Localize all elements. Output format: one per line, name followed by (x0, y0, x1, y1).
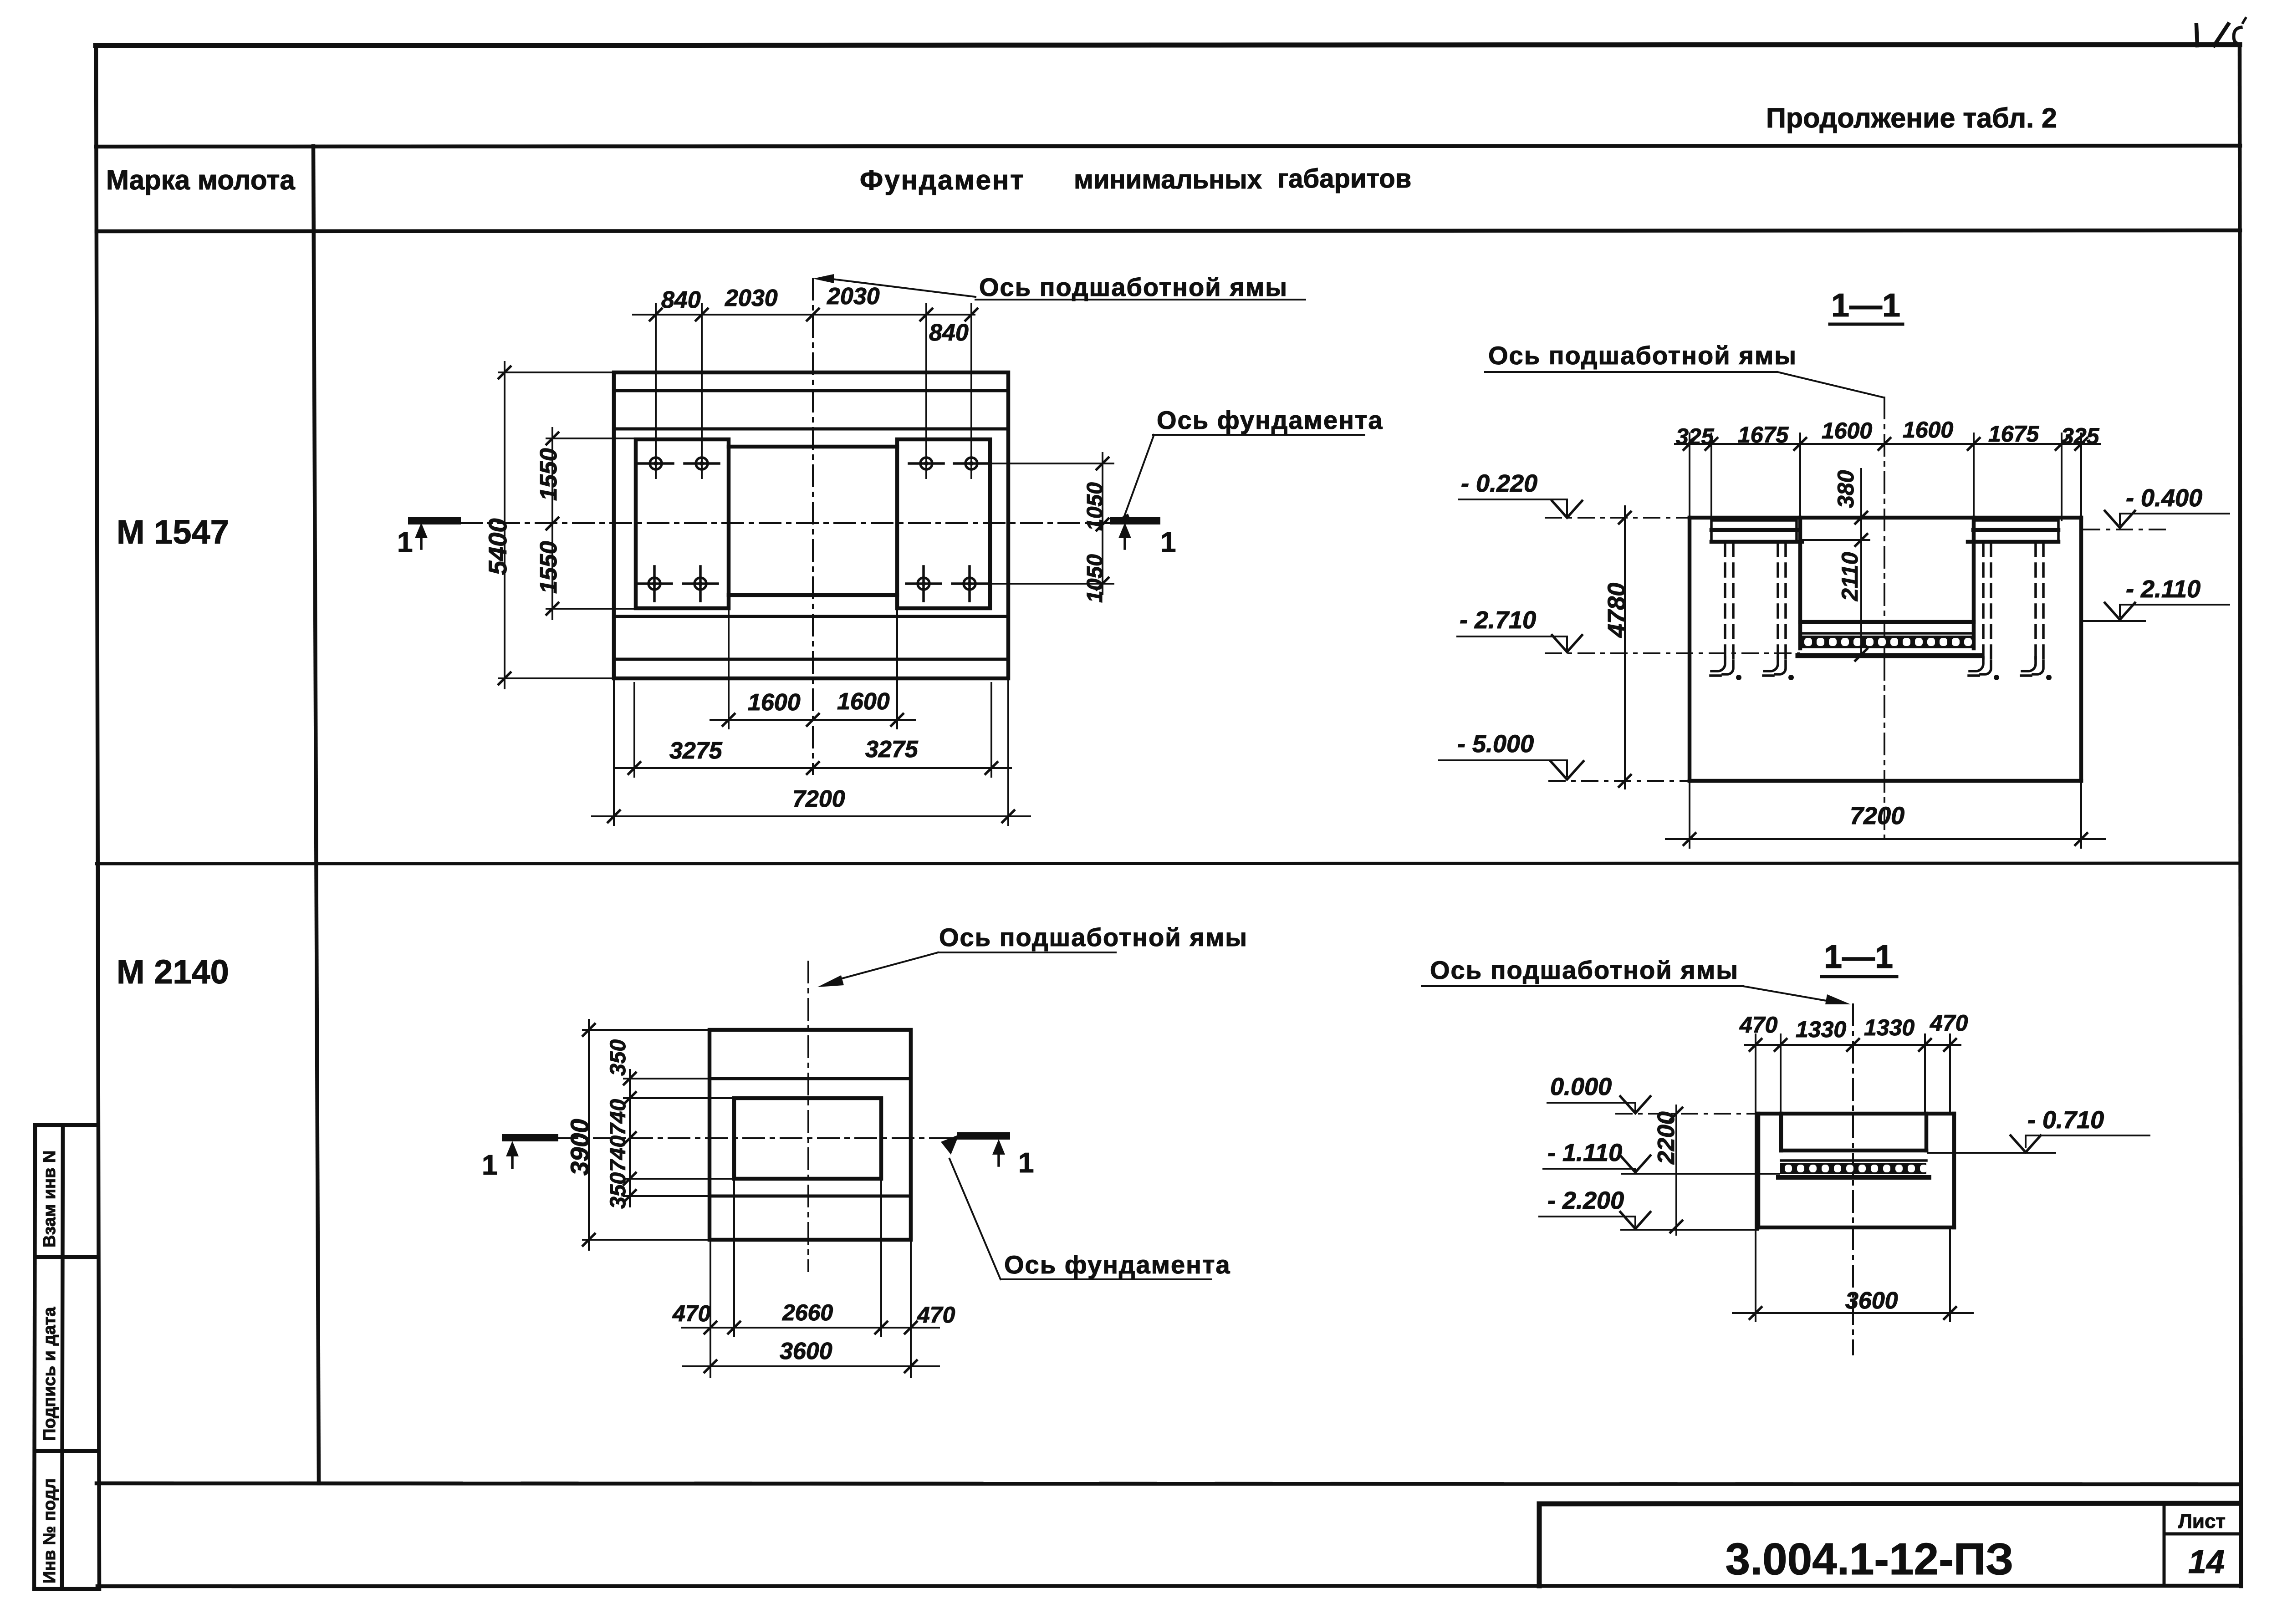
svg-text:Продолжение табл. 2: Продолжение табл. 2 (1766, 102, 2057, 133)
svg-text:- 0.710: - 0.710 (2027, 1106, 2104, 1134)
svg-text:- 0.400: - 0.400 (2126, 484, 2202, 512)
pit floor slab (section M2140) (1778, 1151, 1929, 1177)
svg-text:740: 740 (606, 1135, 630, 1172)
svg-text:- 0.220: - 0.220 (1461, 470, 1537, 497)
svg-text:740: 740 (606, 1099, 630, 1135)
pit wall left (section M1547) (1798, 518, 1802, 648)
svg-text:350: 350 (606, 1039, 630, 1076)
pit floor slab (section M1547) (1798, 622, 1982, 656)
pit wall left (section M2140) (1779, 1114, 1783, 1151)
column divider Марка молота (313, 146, 319, 1483)
section mark 1 right (plan M2140) (961, 1136, 1034, 1179)
svg-text:1: 1 (1018, 1147, 1034, 1179)
svg-text:3275: 3275 (865, 736, 919, 763)
pit outline (plan M1547) (729, 447, 897, 595)
dimension 3600 bottom (section M2140) (1733, 1114, 1973, 1321)
section mark 1 right (plan M1547) (1114, 521, 1176, 558)
anchor bolts dashed left (section M1547) (1725, 543, 1786, 666)
vertical centerline pit axis (plan M2140) (807, 962, 809, 1271)
bearing ledge plate left (section M1547) (1711, 520, 1802, 542)
leader axis of foundation (plan M1547) (1110, 435, 1364, 524)
anchor bolt hooks left (section M1547) (1710, 657, 1794, 680)
dimension 1550 1550 vertical (plan M1547) (546, 428, 669, 619)
elevation mark -0.710 right (section M2140) (1928, 1106, 2149, 1153)
slab bedding circles (section M1547) (1804, 638, 1972, 646)
dimension 3900 vertical (plan M2140) (583, 1020, 710, 1250)
svg-text:- 1.110: - 1.110 (1547, 1139, 1622, 1166)
section title 1-1 (M2140) (1822, 939, 1897, 977)
svg-text:350: 350 (606, 1172, 630, 1209)
svg-text:0.000: 0.000 (1550, 1073, 1612, 1100)
svg-text:2110: 2110 (1837, 552, 1863, 601)
svg-text:470: 470 (917, 1302, 955, 1328)
row divider between M1547 and M2140 (97, 863, 2240, 864)
svg-text:Марка молота: Марка молота (106, 165, 295, 195)
svg-text:470: 470 (1739, 1012, 1778, 1038)
svg-text:- 5.000: - 5.000 (1457, 730, 1534, 758)
foundation slab outline (plan M1547) (614, 372, 1008, 678)
dimension 470 2660 470 (plan M2140) (682, 1179, 939, 1377)
svg-text:Ось подшаботной ямы: Ось подшаботной ямы (1488, 341, 1797, 370)
svg-text:1—1: 1—1 (1831, 287, 1900, 324)
svg-text:1675: 1675 (1988, 421, 2039, 447)
svg-text:4780: 4780 (1603, 583, 1630, 638)
svg-text:1: 1 (482, 1150, 497, 1181)
svg-text:325: 325 (2061, 423, 2100, 449)
svg-text:Лист: Лист (2178, 1510, 2226, 1532)
dimension 7200 bottom (section M1547) (1666, 781, 2105, 848)
dimension 1050 1050 vertical right (plan M1547) (975, 453, 1113, 594)
svg-text:Ось фундамента: Ось фундамента (1157, 406, 1384, 434)
pit wall right (section M1547) (1972, 518, 1976, 648)
svg-text:325: 325 (1676, 424, 1715, 449)
svg-text:7200: 7200 (1850, 802, 1904, 830)
svg-text:- 2.710: - 2.710 (1460, 606, 1536, 634)
table title row line (96, 146, 2240, 147)
svg-text:840: 840 (661, 287, 701, 313)
svg-text:Ось подшаботной ямы: Ось подшаботной ямы (939, 923, 1248, 952)
svg-text:380: 380 (1833, 470, 1858, 508)
svg-text:Подпись и дата: Подпись и дата (40, 1307, 59, 1441)
svg-text:- 2.110: - 2.110 (2126, 575, 2200, 603)
svg-text:М 2140: М 2140 (117, 953, 229, 991)
svg-text:1: 1 (1160, 527, 1176, 558)
leader axis of pit (plan M2140) (817, 952, 1116, 987)
svg-text:Ось фундамента: Ось фундамента (1004, 1250, 1231, 1279)
svg-text:14: 14 (2188, 1544, 2225, 1580)
svg-text:1: 1 (397, 527, 413, 558)
elevation mark -0.220 (section M1547) (1459, 470, 1688, 518)
bearing ledge plate right (section M1547) (1968, 520, 2058, 542)
svg-text:3600: 3600 (1845, 1288, 1898, 1314)
dimension 1600 1600 (plan M1547) (710, 595, 915, 728)
vertical centerline pit axis (section M1547) (1884, 397, 1885, 843)
table bottom line (97, 1483, 2241, 1484)
anchor bolts dashed right (section M1547) (1983, 543, 2043, 666)
svg-text:1330: 1330 (1796, 1017, 1846, 1042)
svg-text:2030: 2030 (725, 285, 778, 311)
svg-text:1600: 1600 (1903, 417, 1953, 443)
dimension 3275 3275 (plan M1547) (615, 683, 1011, 777)
svg-text:1050: 1050 (1083, 482, 1107, 531)
dimension 5400 vertical (plan M1547) (499, 362, 614, 688)
dimension 2200 vertical (section M2140) (1670, 1105, 1682, 1235)
section mark 1 left (plan M1547) (397, 521, 457, 558)
pit outline (plan M2140) (734, 1098, 881, 1179)
svg-text:- 2.200: - 2.200 (1547, 1187, 1624, 1214)
foundation body outline (section M1547) (1690, 518, 2081, 781)
svg-text:Ось подшаботной ямы: Ось подшаботной ямы (1430, 956, 1739, 984)
svg-text:1—1: 1—1 (1824, 939, 1893, 975)
svg-text:2200: 2200 (1653, 1111, 1680, 1165)
dimension 7200 (plan M1547) (592, 678, 1030, 825)
anchor bolt hooks right (section M1547) (1969, 657, 2052, 680)
elevation mark -5.000 (section M1547) (1439, 730, 1688, 781)
dimension 380 vertical (section M1547) (1802, 469, 1869, 546)
bolt symbols (plan M1547) (637, 458, 989, 601)
dimension chain 350 740 740 350 (plan M2140) (624, 1070, 734, 1207)
anchor plate left (plan M1547) (636, 439, 729, 608)
vertical centerline pit axis (plan M1547) (812, 279, 814, 774)
svg-text:2660: 2660 (782, 1300, 833, 1325)
svg-text:1330: 1330 (1864, 1015, 1915, 1040)
svg-text:М 1547: М 1547 (117, 513, 229, 551)
svg-text:2030: 2030 (827, 283, 880, 310)
text Ось подшаботной ямы (section M1547) (1485, 341, 1884, 397)
elevation mark 0.000 (section M2140) (1547, 1073, 1756, 1114)
left sidebar boxes (34, 1125, 99, 1589)
foundation slab outline (plan M2140) (710, 1030, 911, 1240)
svg-text:1550: 1550 (536, 448, 562, 501)
svg-text:1050: 1050 (1083, 554, 1107, 603)
horizontal centerline foundation axis (plan M2140) (556, 1137, 1002, 1139)
svg-text:Ось подшаботной ямы: Ось подшаботной ямы (979, 273, 1288, 301)
leader axis of foundation (plan M2140) (941, 1135, 1211, 1279)
elevation mark -0.400 right (section M1547) (2084, 484, 2229, 529)
table header bottom line (97, 230, 2240, 231)
text Ось подшаботной ямы (section M2140) (1422, 956, 1851, 1004)
top dimension line 325 1675 1600 1600 1675 325 (section M1547) (1675, 433, 2100, 520)
horizontal centerline foundation axis (plan M1547) (461, 522, 1111, 524)
page number 1/6 top right (2196, 18, 2246, 46)
svg-text:габаритов: габаритов (1277, 164, 1411, 193)
svg-text:3600: 3600 (780, 1338, 832, 1364)
dimension 3600 (plan M2140) (683, 1360, 939, 1372)
svg-text:Инв № подл: Инв № подл (40, 1478, 59, 1583)
svg-text:3275: 3275 (669, 738, 723, 764)
slab bedding circles (section M2140) (1785, 1165, 1927, 1172)
svg-text:минимальных: минимальных (1074, 165, 1262, 194)
top dimension line 840 2030 2030 840 (plan M1547) (633, 304, 977, 478)
foundation body outline (section M2140) (1758, 1114, 1954, 1227)
svg-text:1675: 1675 (1738, 422, 1789, 448)
svg-text:5400: 5400 (483, 518, 512, 575)
pit wall right (section M2140) (1925, 1114, 1929, 1151)
svg-text:3900: 3900 (565, 1119, 594, 1176)
elevation mark -2.110 right (section M1547) (2084, 575, 2229, 621)
vertical centerline pit axis (section M2140) (1852, 1004, 1854, 1354)
title block stamp (1539, 1503, 2240, 1586)
anchor plate right (plan M1547) (897, 439, 990, 608)
svg-text:470: 470 (1930, 1010, 1968, 1036)
dimension 4780 vertical (section M1547) (1619, 506, 1631, 789)
top dimension line 470 1330 1330 470 (section M2140) (1745, 1034, 1960, 1114)
svg-text:3.004.1-12-ПЗ: 3.004.1-12-ПЗ (1725, 1534, 2013, 1584)
section title 1-1 (M1547) (1830, 287, 1903, 324)
svg-text:1600: 1600 (748, 689, 801, 716)
svg-text:1550: 1550 (536, 541, 562, 594)
svg-text:Взам инв N: Взам инв N (40, 1151, 59, 1247)
elevation mark -2.200 (section M2140) (1539, 1187, 1758, 1230)
svg-text:7200: 7200 (792, 786, 845, 812)
elevation mark -2.710 (section M1547) (1457, 606, 1799, 653)
section mark 1 left (plan M2140) (482, 1138, 555, 1181)
dimension 2110 vertical (section M1547) (1855, 540, 1867, 661)
svg-text:840: 840 (929, 320, 969, 346)
svg-text:470: 470 (672, 1301, 711, 1326)
svg-text:1600: 1600 (837, 688, 890, 715)
svg-text:Фундамент: Фундамент (860, 165, 1025, 195)
svg-text:1600: 1600 (1822, 418, 1872, 443)
leader axis of pit (plan M1547) (813, 274, 1305, 300)
elevation mark -1.110 (section M2140) (1543, 1139, 1779, 1174)
